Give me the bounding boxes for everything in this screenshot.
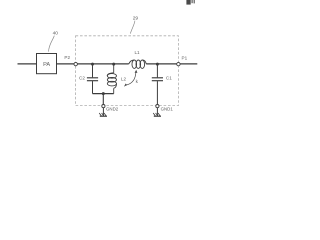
wire: input to PA <box>18 63 37 65</box>
dashed matching-network box 29 <box>76 36 179 106</box>
coupling arrow k between L1 and L2 <box>124 70 137 87</box>
terminal GND2 circle <box>102 105 105 108</box>
inductor L1 (series) <box>129 60 147 68</box>
svg-text:C2: C2 <box>79 75 85 80</box>
capacitor C2 <box>87 64 98 94</box>
figure number fragment (cut-off) top right <box>186 0 195 5</box>
svg-text:P2: P2 <box>64 55 70 60</box>
wire <box>146 63 197 65</box>
svg-text:40: 40 <box>53 30 59 36</box>
node: junction top of C1 <box>156 63 159 66</box>
svg-text:GND2: GND2 <box>106 107 119 112</box>
terminal GND1 circle <box>156 105 159 108</box>
wire: PA output through network to output <box>57 63 129 65</box>
svg-text:C1: C1 <box>166 76 172 81</box>
capacitor C1 <box>152 64 163 104</box>
svg-text:GND1: GND1 <box>161 107 174 112</box>
svg-text:PA: PA <box>43 62 50 68</box>
amplifier PA box 40 <box>37 54 57 74</box>
leader for 29 <box>130 21 135 34</box>
port P1 circle <box>177 62 180 65</box>
wire: bottom of C2/L2 parallel <box>93 93 114 95</box>
node: junction top of C2 <box>91 63 94 66</box>
ground symbol GND2 <box>99 108 107 117</box>
svg-text:L2: L2 <box>121 76 127 81</box>
svg-text:29: 29 <box>133 15 139 21</box>
ground symbol GND1 <box>153 108 161 117</box>
svg-text:P1: P1 <box>182 56 188 61</box>
node: junction on bottom wire <box>102 92 105 95</box>
inductor L2 (shunt) <box>107 64 116 94</box>
leader for 40 <box>49 36 55 52</box>
svg-text:L1: L1 <box>134 50 140 55</box>
node: junction top of L2 <box>112 63 115 66</box>
port P2 circle <box>74 62 77 65</box>
wire: GND2 lead <box>102 94 104 105</box>
